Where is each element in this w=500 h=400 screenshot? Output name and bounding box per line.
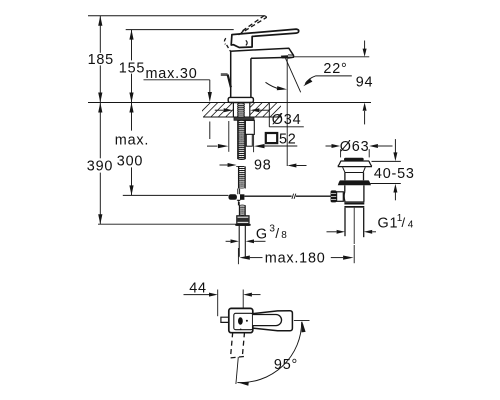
rotated handle ghost dashed left (231, 332, 233, 357)
dimension 94 (364, 41, 366, 50)
label shelf for diameter 34 (268, 103, 270, 127)
svg-text:Ø63: Ø63 (340, 139, 370, 155)
svg-text:155: 155 (119, 61, 145, 77)
threaded rod lower section (237, 166, 239, 188)
svg-text:300: 300 (117, 153, 143, 169)
dimension 98 (220, 164, 229, 166)
svg-text:Ø34: Ø34 (272, 112, 302, 128)
dimension max.180 (237, 248, 239, 264)
22 degree spray reference vertical line (286, 58, 288, 166)
plan body square (229, 308, 253, 332)
threaded shank below deck (237, 120, 239, 159)
svg-text:max.180: max.180 (265, 250, 326, 266)
deck hatching (196, 103, 292, 118)
handle raised ghost (dashed) lower edge (239, 17, 267, 34)
svg-text:/: / (275, 226, 280, 241)
rotated handle centerline (236, 357, 238, 384)
95 degree reference line (294, 320, 310, 322)
flange neck (343, 167, 345, 172)
22 degree tilted stream line (286, 58, 301, 92)
svg-text:22°: 22° (323, 61, 347, 77)
svg-text:94: 94 (356, 74, 374, 90)
handle inner right edge (251, 36, 253, 47)
dimension 40-53 (372, 160, 401, 162)
95 degree arc (237, 322, 301, 383)
pull rod vertical below threads (237, 189, 239, 195)
handle raised ghost (dashed) upper edge (243, 16, 265, 31)
svg-text:98: 98 (254, 158, 272, 174)
supply nipple tube (238, 226, 240, 257)
dimension 155/max300 vertical line (131, 30, 133, 61)
washer under deck (234, 117, 254, 120)
extension line handle pivot (242, 290, 244, 316)
tailpipe centerline / extension (353, 208, 355, 244)
rod below junction (238, 202, 240, 206)
dimension G1 1/4 (327, 231, 337, 233)
rod break marks (292, 194, 294, 199)
svg-text:185: 185 (88, 52, 114, 68)
faucet escutcheon base (228, 97, 253, 102)
hole edge lines in deck (232, 103, 234, 118)
G3/8 nut (237, 216, 250, 226)
knurled adjuster knob (331, 190, 337, 202)
extension line spout tip (217, 290, 219, 317)
svg-text:40-53: 40-53 (374, 166, 415, 182)
deck bottom line (203, 116, 281, 118)
ghost handle base dashed arc (224, 38, 225, 44)
faucet body right edge (250, 58, 252, 97)
label square52 (266, 133, 277, 143)
dimension arrows diameter 34 (215, 109, 224, 111)
drain body lower walls (344, 185, 346, 191)
plan lever slot (253, 315, 282, 326)
rotated handle ghost dashed right (242, 332, 244, 357)
svg-text:G: G (256, 227, 268, 243)
reference line handle rest height (126, 29, 234, 31)
svg-text:max.: max. (115, 132, 149, 148)
deck / mounting surface top line (88, 102, 371, 104)
plan lever (neck + paddle) (252, 311, 292, 331)
rubber seal ring (338, 180, 371, 185)
faucet body top and spout (230, 48, 293, 58)
horizontal pop-up rod left part (123, 194, 229, 196)
pop-up pull rod knob on body (221, 73, 228, 75)
svg-text:/: / (402, 215, 406, 230)
dimension D63 (326, 145, 333, 147)
handle lever + base (rest position) (231, 29, 299, 47)
spout outlet level line (294, 56, 369, 58)
390 bottom reference line (98, 223, 237, 225)
dimension square52 extension lines (228, 121, 230, 152)
svg-text:52: 52 (279, 131, 297, 147)
svg-text:8: 8 (281, 230, 287, 241)
dimension square52 arrows (207, 145, 217, 147)
reference line top (handle raised max height) (88, 15, 265, 17)
rotated handle ghost dashed cap (231, 357, 245, 358)
svg-text:G1: G1 (378, 215, 399, 231)
drain body bottom edge (344, 201, 364, 203)
faucet body left edge (230, 51, 232, 98)
right leader from 22deg label (316, 75, 352, 77)
drain pop-up plug knob (344, 158, 364, 161)
rod connector box (337, 192, 344, 202)
rod junction block (229, 194, 237, 200)
drain body upper walls (344, 173, 346, 181)
mounting bracket lower (246, 134, 252, 146)
svg-text:390: 390 (87, 159, 113, 175)
left curved leader with arrow (266, 82, 280, 89)
aerator dark detail (281, 55, 288, 58)
dimension G3/8 arrows (226, 240, 231, 242)
mounting bracket upper (245, 120, 254, 134)
dimension 185/390 vertical line (99, 16, 101, 53)
plan cartridge dot (238, 317, 243, 324)
G3/8 threaded end (238, 205, 240, 215)
drain flange (341, 160, 370, 162)
svg-text:95°: 95° (274, 357, 298, 373)
svg-text:4: 4 (408, 220, 414, 231)
plan handle base inner (234, 313, 253, 329)
coupling nut bands (344, 203, 364, 205)
ghost lever tip cap (264, 16, 266, 18)
tailpipe walls (344, 208, 346, 237)
horizontal pop-up rod right part (245, 195, 292, 197)
handle detail arc (246, 40, 247, 45)
flange extension stubs (340, 149, 342, 157)
shank break (238, 158, 246, 160)
threaded shank in hole (238, 103, 245, 105)
plan spout stub (221, 317, 229, 322)
